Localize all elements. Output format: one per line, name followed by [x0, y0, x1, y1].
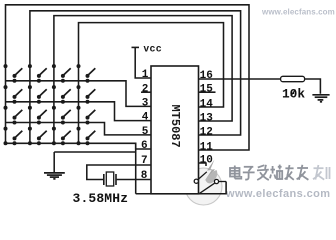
IC U1 MT5087 body: [151, 66, 199, 194]
vertical bus x=135.7 to bottom rail: [135, 143, 137, 193]
node: column 4 junction on row 4: [77, 141, 81, 145]
svg-text:10k: 10k: [282, 87, 305, 102]
keypad switch S42: [28, 127, 47, 146]
wire row3 to pin 5: [6, 123, 152, 135]
keypad switch S44: [77, 127, 96, 146]
wire row2 to pin 4: [6, 102, 152, 121]
watermark logo circle: [185, 160, 222, 206]
svg-text:15: 15: [200, 84, 214, 96]
pin numbers left: [141, 69, 149, 182]
svg-text:13: 13: [200, 112, 214, 124]
svg-text:14: 14: [200, 98, 214, 110]
keypad switch S14: [77, 64, 96, 83]
keypad switch S13: [52, 64, 71, 83]
node: column 3 junction on row 4: [52, 141, 56, 145]
ground G1 drop: [53, 152, 55, 172]
svg-text:3.58MHz: 3.58MHz: [73, 191, 129, 206]
keypad switch S23: [52, 85, 71, 104]
svg-text:16: 16: [200, 70, 213, 82]
resistor R1 10k body: [281, 76, 305, 81]
pin 2 stub: [141, 91, 151, 93]
svg-text:7: 7: [141, 155, 148, 167]
resistor right wire to ground: [305, 79, 321, 94]
keypad switch S43: [52, 127, 71, 146]
pin 8 wire / crystal right lead: [117, 179, 151, 181]
bottom rail under IC to switch riser: [136, 182, 226, 194]
ground G2 right (hatched): [312, 95, 329, 102]
pin 10 stub: [199, 163, 207, 166]
svg-text:10: 10: [200, 154, 213, 166]
node: column 2 junction on row 4: [28, 141, 32, 145]
svg-text:3: 3: [142, 98, 149, 110]
svg-text:6: 6: [141, 140, 148, 152]
keypad switch S24: [77, 85, 96, 104]
svg-text:8: 8: [141, 170, 148, 182]
crystal X1 plates: [103, 174, 105, 185]
keypad switch S33: [52, 106, 71, 125]
wire row4 to pin 6: [6, 143, 152, 149]
keypad switch S12: [28, 64, 47, 83]
svg-text:12: 12: [200, 126, 213, 138]
svg-text:vcc: vcc: [144, 44, 163, 55]
keypad switch S21: [4, 85, 23, 104]
pin numbers right: [200, 70, 214, 167]
svg-text:11: 11: [200, 141, 214, 153]
keypad switch S11: [4, 64, 23, 83]
svg-text:5: 5: [142, 126, 149, 138]
switch SW1 (hook switch): [194, 172, 226, 194]
wire col3 top loop to pin 13: [54, 16, 232, 144]
svg-text:4: 4: [142, 112, 149, 124]
wire col4 top loop to pin 14: [79, 23, 224, 144]
vcc rail down to pin 1: [135, 47, 151, 78]
slash of zero in 10k: [291, 90, 296, 96]
svg-text:www.elecfans.com: www.elecfans.com: [261, 8, 335, 17]
svg-text:1: 1: [142, 69, 149, 81]
svg-text:www.elecfans.com: www.elecfans.com: [225, 188, 330, 200]
watermark chinese text 电子发烧友: [230, 165, 330, 180]
keypad switch S31: [4, 106, 23, 125]
keypad switch S41: [4, 127, 23, 146]
vcc symbol: [132, 46, 140, 48]
wire col1 top loop to pin 11: [6, 5, 250, 150]
node: column 1 junction on row 4: [4, 141, 8, 145]
svg-text:2: 2: [142, 83, 149, 95]
keypad switch S22: [28, 85, 47, 104]
pin 16 wire to resistor: [199, 78, 281, 80]
keypad switch S32: [28, 106, 47, 125]
ground bus line under keypad: [54, 151, 136, 153]
wire row1 to pin 3: [6, 81, 152, 107]
keypad switch S34: [77, 106, 96, 125]
pin 15 stub: [199, 91, 216, 93]
svg-text:MT5087: MT5087: [168, 105, 182, 148]
crystal body: [106, 172, 113, 186]
pin 7 wire and crystal loop: [87, 165, 151, 180]
ground G1 under keypad (hatched): [44, 173, 65, 179]
wire col2 top loop to pin 12: [30, 11, 241, 144]
